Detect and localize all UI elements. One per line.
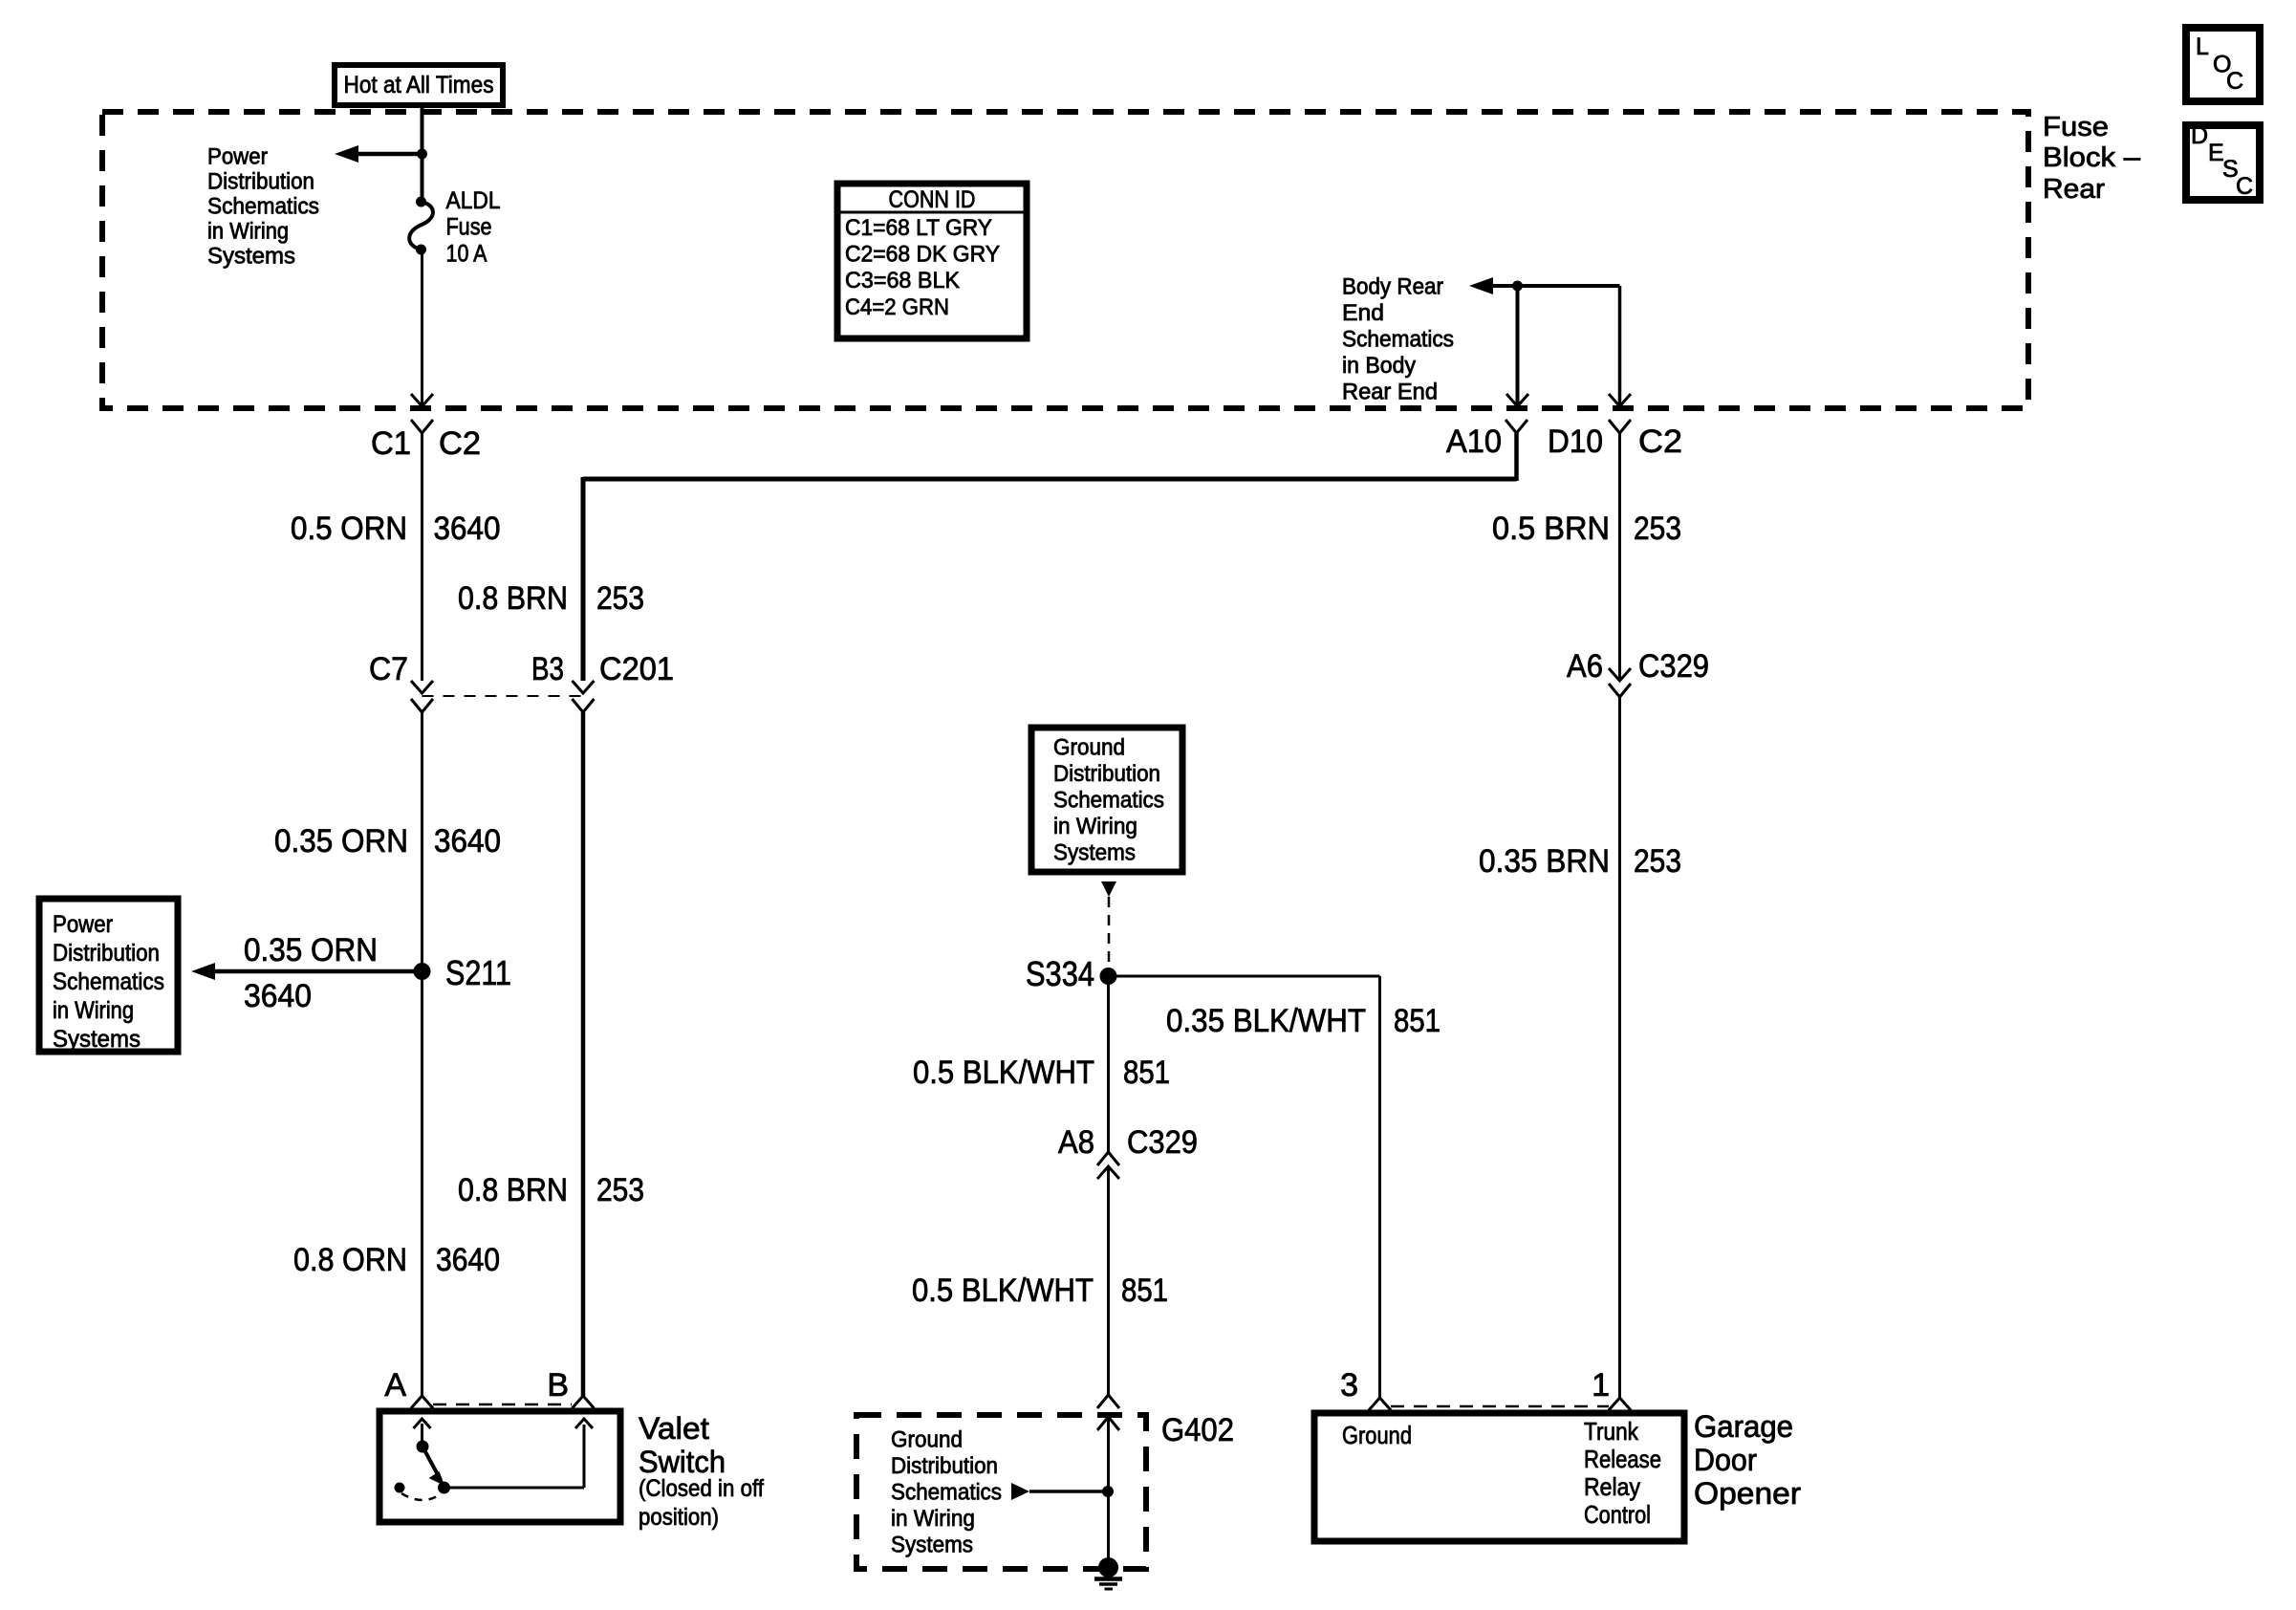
svg-text:C3=68 BLK: C3=68 BLK	[845, 268, 960, 294]
svg-text:Release: Release	[1584, 1445, 1661, 1473]
svg-text:Trunk: Trunk	[1584, 1417, 1639, 1446]
svg-text:Power: Power	[207, 144, 268, 170]
svg-text:Body Rear: Body Rear	[1342, 274, 1443, 300]
svg-text:851: 851	[1123, 1055, 1170, 1091]
svg-text:A10: A10	[1446, 424, 1502, 460]
svg-text:851: 851	[1121, 1273, 1168, 1309]
svg-text:S211: S211	[445, 953, 511, 992]
svg-text:Control: Control	[1584, 1500, 1651, 1529]
svg-text:Garage: Garage	[1694, 1409, 1793, 1444]
svg-text:Distribution: Distribution	[891, 1453, 998, 1479]
svg-text:Distribution: Distribution	[1053, 761, 1160, 787]
svg-text:Ground: Ground	[891, 1427, 963, 1453]
svg-text:C: C	[2236, 173, 2253, 200]
svg-text:C1=68 LT GRY: C1=68 LT GRY	[845, 215, 992, 241]
svg-text:C1: C1	[371, 425, 411, 462]
svg-text:Door: Door	[1694, 1443, 1757, 1477]
svg-text:(Closed in off: (Closed in off	[639, 1475, 764, 1502]
svg-text:End: End	[1342, 300, 1384, 326]
svg-text:0.35 BLK/WHT: 0.35 BLK/WHT	[1166, 1003, 1366, 1039]
svg-text:in Wiring: in Wiring	[1053, 814, 1137, 839]
svg-text:0.8 ORN: 0.8 ORN	[293, 1242, 407, 1278]
svg-text:Systems: Systems	[891, 1533, 973, 1558]
svg-text:C: C	[2226, 68, 2243, 95]
svg-text:Relay: Relay	[1584, 1472, 1640, 1501]
svg-text:3640: 3640	[434, 823, 501, 859]
svg-text:851: 851	[1394, 1003, 1440, 1039]
svg-text:Systems: Systems	[207, 244, 295, 270]
svg-text:B: B	[547, 1367, 569, 1403]
svg-text:0.5 BLK/WHT: 0.5 BLK/WHT	[913, 1055, 1094, 1091]
svg-text:1: 1	[1592, 1367, 1610, 1403]
svg-text:A6: A6	[1567, 648, 1603, 685]
svg-text:L: L	[2196, 33, 2209, 60]
svg-text:A: A	[384, 1367, 406, 1403]
svg-text:Systems: Systems	[1053, 840, 1136, 866]
svg-text:G402: G402	[1161, 1412, 1234, 1448]
svg-text:Hot at All Times: Hot at All Times	[344, 72, 494, 98]
svg-text:Schematics: Schematics	[1342, 327, 1454, 353]
svg-text:253: 253	[1634, 843, 1681, 880]
svg-text:0.8 BRN: 0.8 BRN	[458, 580, 568, 617]
svg-text:Valet: Valet	[639, 1411, 709, 1446]
svg-text:C329: C329	[1127, 1124, 1198, 1161]
svg-text:Rear: Rear	[2043, 174, 2105, 205]
svg-text:in Wiring: in Wiring	[891, 1506, 975, 1532]
svg-text:3640: 3640	[244, 978, 312, 1014]
svg-text:position): position)	[639, 1504, 719, 1531]
svg-text:C201: C201	[599, 651, 674, 687]
svg-text:A8: A8	[1058, 1124, 1094, 1161]
svg-text:0.5 BRN: 0.5 BRN	[1492, 511, 1610, 547]
svg-text:Opener: Opener	[1694, 1476, 1801, 1511]
svg-text:C329: C329	[1638, 648, 1709, 685]
svg-text:0.5 ORN: 0.5 ORN	[291, 511, 407, 547]
svg-text:Switch: Switch	[639, 1445, 726, 1479]
svg-text:Schematics: Schematics	[207, 194, 319, 220]
svg-text:Schematics: Schematics	[1053, 788, 1164, 814]
svg-text:0.8 BRN: 0.8 BRN	[458, 1172, 568, 1208]
svg-text:Fuse: Fuse	[2043, 112, 2109, 142]
svg-text:D: D	[2191, 122, 2208, 149]
svg-text:D10: D10	[1548, 424, 1603, 460]
svg-text:Ground: Ground	[1053, 735, 1125, 761]
svg-text:Distribution: Distribution	[207, 169, 314, 195]
svg-text:Systems: Systems	[53, 1026, 141, 1053]
svg-text:C2: C2	[439, 425, 481, 462]
svg-text:Block –: Block –	[2043, 142, 2141, 173]
svg-text:Ground: Ground	[1342, 1421, 1412, 1449]
svg-text:253: 253	[596, 1172, 644, 1208]
svg-text:Distribution: Distribution	[53, 940, 160, 967]
svg-text:0.35 ORN: 0.35 ORN	[244, 932, 378, 968]
svg-text:Fuse: Fuse	[446, 214, 492, 241]
svg-text:Power: Power	[53, 911, 113, 938]
svg-text:Schematics: Schematics	[891, 1480, 1002, 1506]
svg-text:C7: C7	[369, 651, 408, 687]
svg-text:0.35 BRN: 0.35 BRN	[1479, 843, 1610, 880]
svg-text:Rear End: Rear End	[1342, 380, 1438, 405]
svg-text:253: 253	[596, 580, 644, 617]
svg-text:B3: B3	[531, 651, 564, 687]
svg-text:0.5 BLK/WHT: 0.5 BLK/WHT	[912, 1273, 1094, 1309]
svg-text:in Wiring: in Wiring	[53, 997, 134, 1024]
svg-text:C2=68 DK GRY: C2=68 DK GRY	[845, 242, 1000, 268]
svg-text:in Wiring: in Wiring	[207, 219, 289, 245]
svg-text:253: 253	[1634, 511, 1681, 547]
svg-text:CONN ID: CONN ID	[889, 186, 976, 213]
svg-text:3: 3	[1340, 1367, 1358, 1403]
svg-text:3640: 3640	[436, 1242, 500, 1278]
svg-text:in Body: in Body	[1342, 353, 1416, 379]
svg-text:C4=2 GRN: C4=2 GRN	[845, 294, 949, 320]
svg-text:ALDL: ALDL	[446, 187, 501, 214]
svg-text:C2: C2	[1638, 424, 1682, 460]
svg-text:3640: 3640	[434, 511, 501, 547]
svg-text:S334: S334	[1026, 954, 1094, 993]
svg-text:Schematics: Schematics	[53, 968, 164, 995]
svg-text:10 A: 10 A	[446, 240, 487, 267]
svg-text:0.35 ORN: 0.35 ORN	[274, 823, 408, 859]
